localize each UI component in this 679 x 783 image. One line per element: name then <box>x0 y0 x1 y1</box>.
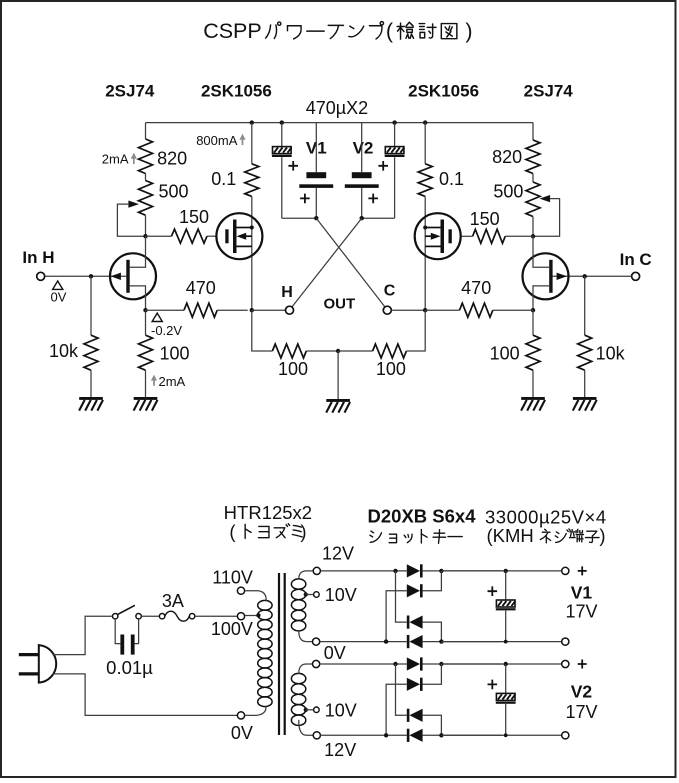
svg-text:(KMH: (KMH <box>487 525 534 546</box>
svg-text:D20XB S6x4: D20XB S6x4 <box>368 506 477 527</box>
terminal In H <box>37 272 45 280</box>
node In H / 10k <box>89 274 93 278</box>
svg-text:2SJ74: 2SJ74 <box>105 82 155 101</box>
node output center <box>336 349 340 353</box>
resistor 10k left <box>90 276 92 335</box>
secondary winding bottom <box>291 673 305 725</box>
terminal 0V primary <box>237 712 244 719</box>
resistor 820 left <box>139 139 153 174</box>
wire V1 bottom join <box>282 217 317 219</box>
node AC lo <box>384 639 388 643</box>
resistor 10k right <box>584 276 586 335</box>
node H wire <box>250 308 254 312</box>
wire minus rail to terminal V2 <box>441 734 561 736</box>
wire 12V bottom lead <box>299 720 313 735</box>
primary winding <box>258 600 272 706</box>
node gate junction right <box>531 234 535 238</box>
wire 500 to junction right <box>532 217 534 237</box>
wire D2 anode <box>386 591 407 642</box>
wire rail to 820 left <box>145 123 147 139</box>
label 2mA up left <box>153 379 155 386</box>
node source junction right <box>531 308 535 312</box>
wire In H <box>45 275 126 277</box>
wire 0V lead <box>245 706 266 715</box>
wire In C <box>553 275 632 277</box>
wire D2 cathode <box>423 571 442 591</box>
terminal V1 plus <box>562 567 569 574</box>
node V2 out <box>360 216 364 220</box>
svg-text:150: 150 <box>470 209 500 229</box>
wire 100V tap <box>245 615 258 617</box>
svg-text:12V: 12V <box>324 740 356 760</box>
wire D3 anode <box>423 622 442 642</box>
svg-text:H: H <box>281 284 293 301</box>
wire 110V lead <box>245 591 266 601</box>
capacitor 33000u V1 <box>505 571 507 600</box>
svg-text:110V: 110V <box>212 567 253 587</box>
terminal 0V mid bottom <box>313 660 320 667</box>
wire 10V tap top <box>304 592 308 596</box>
svg-text:0.1: 0.1 <box>211 169 236 189</box>
terminal 0V mid top <box>313 638 320 645</box>
wire 0.1 to mosfet drain right <box>424 196 426 310</box>
svg-text:820: 820 <box>157 148 187 168</box>
terminal H <box>286 306 294 314</box>
ground center <box>326 399 350 402</box>
mosfet 2SK1056 right <box>415 213 461 259</box>
wire V1 to C diagonal <box>316 218 385 307</box>
wire D3 anode <box>423 715 442 735</box>
terminal C <box>383 306 391 314</box>
node rail-0.1R <box>423 120 427 124</box>
wire 820-500 right <box>532 174 534 183</box>
wire 0.1 to mosfet drain left <box>251 196 253 310</box>
pot wiper arrow left <box>128 201 139 208</box>
capacitor 470u V1 <box>281 123 283 147</box>
svg-text:V1: V1 <box>571 583 593 603</box>
node minus rail <box>439 733 443 737</box>
wire center to ground <box>337 351 339 399</box>
marker -0.2V triangle <box>152 313 162 321</box>
svg-text:10k: 10k <box>596 343 626 363</box>
wire rail to 0.1 left <box>251 123 253 164</box>
node minus rail <box>439 639 443 643</box>
svg-text:100: 100 <box>278 359 308 379</box>
marker 0V triangle <box>53 281 63 289</box>
svg-text:2SJ74: 2SJ74 <box>524 82 574 101</box>
ground 100 left <box>134 397 158 400</box>
wire plus rail to terminal V2 <box>441 663 561 665</box>
resistor 470 right <box>425 309 459 311</box>
wire plug top <box>53 616 113 654</box>
wire 500 to junction left <box>145 215 147 236</box>
svg-text:10V: 10V <box>325 700 357 720</box>
resistor 100 output left <box>252 310 273 351</box>
svg-text:10V: 10V <box>325 585 357 605</box>
svg-text:): ) <box>300 521 306 542</box>
terminal 10V bottom <box>314 707 320 713</box>
node AC hi <box>393 569 397 573</box>
terminal V2 plus <box>562 660 569 667</box>
svg-text:2mA: 2mA <box>102 151 129 166</box>
wire 820-500 left <box>145 174 147 181</box>
terminal V1 minus <box>562 638 569 645</box>
svg-text:100: 100 <box>376 359 406 379</box>
svg-text:HTR125x2: HTR125x2 <box>224 502 312 523</box>
svg-text:150: 150 <box>179 207 209 227</box>
node rail-0.1L <box>250 120 254 124</box>
node plus rail <box>439 662 443 666</box>
mosfet 2SK1056 left <box>216 213 262 259</box>
svg-text:100: 100 <box>490 343 520 363</box>
terminal 100V <box>237 613 244 620</box>
node AC lo <box>384 733 388 737</box>
svg-text:2mA: 2mA <box>159 374 186 389</box>
node rail-capV1 <box>280 120 284 124</box>
wire D1 cathode <box>423 570 502 572</box>
wire 12V top lead <box>299 571 313 580</box>
svg-text:17V: 17V <box>565 702 597 722</box>
resistor 820 right <box>526 140 540 174</box>
wire AC hi row <box>320 663 407 665</box>
diode D1 <box>407 657 420 670</box>
svg-text:-0.2V: -0.2V <box>151 323 182 338</box>
wire AC lo row <box>321 734 407 736</box>
wire AC hi row <box>321 570 407 572</box>
resistor 0.1 left <box>245 164 259 197</box>
resistor 100 left (source) <box>145 310 147 335</box>
svg-text:(: ( <box>229 521 236 542</box>
diode D4 <box>407 635 410 648</box>
terminal 12V top <box>313 567 320 574</box>
wire 10V tap bottom <box>304 708 308 712</box>
terminal In C <box>632 272 640 280</box>
wire 0V mid lead bottom <box>299 664 313 674</box>
pot wiper arrow right <box>540 195 551 202</box>
label schottky <box>370 531 382 542</box>
wire top rail <box>146 122 534 124</box>
jfet 2SJ74 left <box>110 236 156 310</box>
capacitor 0.01u <box>115 619 120 644</box>
resistor 150 left <box>146 235 172 237</box>
svg-text:In H: In H <box>22 248 54 267</box>
wire V2 to H diagonal <box>292 218 362 307</box>
resistor 0.1 right <box>418 164 432 197</box>
diode D4 <box>407 729 410 742</box>
potentiometer 500 right <box>526 182 540 217</box>
svg-text:C: C <box>384 283 396 300</box>
resistor 470 left <box>146 309 185 311</box>
svg-text:0V: 0V <box>231 723 253 743</box>
svg-text:2SK1056: 2SK1056 <box>201 82 272 101</box>
svg-text:500: 500 <box>158 182 188 202</box>
svg-text:500: 500 <box>493 181 523 201</box>
resistor 100 output right <box>338 350 373 352</box>
node C wire <box>423 308 427 312</box>
svg-text:100V: 100V <box>211 619 253 639</box>
wire minus rail to terminal V1 <box>441 641 561 643</box>
terminal 110V <box>237 587 244 594</box>
svg-text:800mA: 800mA <box>196 133 238 148</box>
wire V2 bottom join <box>362 217 395 219</box>
wire D3 cathode <box>396 571 407 622</box>
svg-text:820: 820 <box>492 147 522 167</box>
ground 10k left <box>79 397 103 400</box>
potentiometer 500 left <box>139 181 153 216</box>
svg-text:12V: 12V <box>322 544 354 564</box>
svg-text:470: 470 <box>461 278 491 298</box>
svg-text:V2: V2 <box>353 138 374 157</box>
wire rail to 820 right <box>532 123 534 140</box>
capacitor 33000u V2 <box>505 664 507 693</box>
svg-text:V2: V2 <box>571 682 593 702</box>
svg-text:470µX2: 470µX2 <box>306 98 368 118</box>
switch <box>113 614 118 619</box>
svg-text:CSPP: CSPP <box>203 19 262 43</box>
diode D3 <box>407 709 410 722</box>
terminal V2 minus <box>562 732 569 739</box>
jfet 2SJ74 right <box>523 236 569 310</box>
diode D3 <box>407 616 410 629</box>
svg-text:0V: 0V <box>324 643 346 663</box>
wire D2 cathode <box>423 664 442 684</box>
terminal 12V bottom <box>313 732 320 739</box>
wire D2 anode <box>386 684 407 735</box>
node AC hi <box>393 662 397 666</box>
node gate junction left <box>143 234 147 238</box>
ac plug <box>39 645 56 683</box>
wire 0V mid lead top <box>299 630 313 641</box>
resistor 150 right <box>505 235 533 237</box>
node V1 out <box>314 216 318 220</box>
wire plus rail to terminal V1 <box>441 570 561 572</box>
svg-text:3A: 3A <box>162 591 184 611</box>
svg-text:0.01µ: 0.01µ <box>106 657 153 678</box>
secondary winding top <box>291 579 305 631</box>
wire D3 cathode <box>396 664 407 715</box>
svg-text:2SK1056: 2SK1056 <box>408 82 479 101</box>
svg-text:100: 100 <box>160 343 190 363</box>
terminal 10V top <box>314 592 320 598</box>
transformer core <box>278 573 280 735</box>
svg-text:In C: In C <box>620 250 652 269</box>
wire switch-fuse <box>141 615 159 617</box>
svg-text:0.1: 0.1 <box>439 169 464 189</box>
node In C / 10k <box>583 274 587 278</box>
svg-text:17V: 17V <box>565 602 597 622</box>
wire D4 anode <box>423 641 502 643</box>
ground 10k right <box>573 397 597 400</box>
node source junction left <box>143 308 147 312</box>
svg-text:(: ( <box>386 19 394 43</box>
svg-text:10k: 10k <box>49 341 79 361</box>
title text <box>203 19 472 43</box>
svg-text:0V: 0V <box>51 289 67 304</box>
wire plug bottom <box>53 674 238 716</box>
svg-text:): ) <box>465 19 472 43</box>
capacitor 470u V2 <box>394 123 396 147</box>
node rail-capV2 <box>392 120 396 124</box>
wire D1 cathode <box>423 663 502 665</box>
svg-text:): ) <box>599 525 605 546</box>
svg-text:470: 470 <box>186 278 216 298</box>
wire AC lo row <box>320 641 407 643</box>
diode D2 <box>407 678 420 691</box>
wire rail to 0.1 right <box>424 123 426 164</box>
ground 100 right <box>521 397 545 400</box>
wire D4 anode <box>423 734 502 736</box>
diode D2 <box>407 584 420 597</box>
resistor 100 right (source) <box>532 310 534 335</box>
svg-text:OUT: OUT <box>323 295 355 312</box>
wire fuse to transformer <box>195 615 238 617</box>
diode D1 <box>407 564 420 577</box>
node plus rail <box>439 569 443 573</box>
